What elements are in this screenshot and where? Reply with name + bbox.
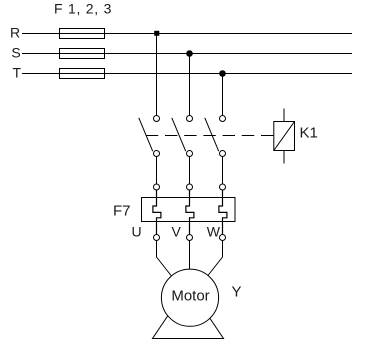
fuse F2: [60, 49, 105, 59]
fuse F1: [60, 29, 105, 39]
fuse F3: [60, 69, 105, 79]
wire phase T line: [22, 73, 352, 75]
wire V to motor: [189, 241, 191, 276]
wire drop L2: [189, 54, 191, 116]
overload relay F7 box: [142, 198, 236, 222]
wire drop L1: [156, 34, 158, 116]
svg-text:K1: K1: [300, 125, 318, 142]
svg-text:U: U: [132, 224, 142, 240]
wire phase S line: [22, 53, 352, 55]
overload heater element 1: [153, 190, 161, 235]
motor mounting base: [153, 314, 224, 339]
wire pole3 to overload: [222, 157, 224, 185]
svg-text:Y: Y: [232, 284, 242, 301]
dashed mechanical link to coil: [146, 135, 274, 137]
wire pole1 to overload: [156, 157, 158, 185]
coil K1: [274, 109, 295, 164]
svg-text:Motor: Motor: [171, 288, 209, 305]
terminal circle above F7 pole2: [187, 184, 193, 190]
terminal V circle: [187, 235, 193, 241]
wire pole2 to overload: [189, 157, 191, 185]
junction node on S: [186, 50, 193, 57]
terminal U circle: [154, 235, 160, 241]
overload heater element 2: [186, 190, 194, 235]
overload heater element 3: [219, 190, 227, 235]
terminal circle above F7 pole3: [220, 184, 226, 190]
junction node on T: [219, 70, 226, 77]
terminal W circle: [220, 235, 226, 241]
svg-text:W: W: [207, 224, 221, 240]
svg-text:V: V: [172, 224, 182, 240]
wire drop L3: [222, 74, 224, 116]
svg-text:T: T: [13, 65, 22, 81]
junction node on R: [154, 31, 159, 36]
motor M1 body: [161, 269, 218, 326]
svg-text:S: S: [11, 45, 20, 61]
contactor K1 main contact pole 2: [172, 116, 193, 157]
wire W to motor: [204, 241, 223, 281]
contactor K1 main contact pole 1: [139, 116, 160, 157]
terminal circle above F7 pole1: [154, 184, 160, 190]
wire phase R line: [22, 33, 352, 35]
contactor K1 main contact pole 3: [205, 116, 226, 157]
svg-text:F7: F7: [113, 203, 131, 220]
svg-text:R: R: [10, 25, 20, 41]
wire U to motor: [157, 241, 176, 281]
svg-text:F 1, 2, 3: F 1, 2, 3: [54, 1, 112, 17]
